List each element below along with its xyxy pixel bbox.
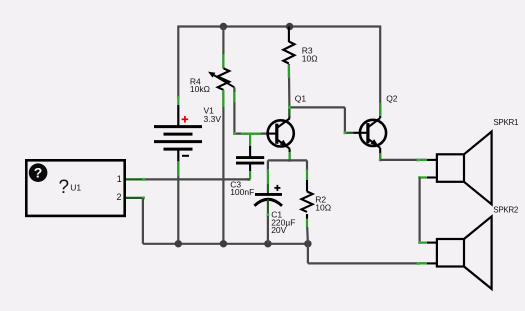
wire battery negative lead <box>177 161 179 244</box>
wire R4 bottom lead to ground rail <box>222 90 224 244</box>
svg-text:1: 1 <box>117 174 122 184</box>
svg-text:3.3V: 3.3V <box>204 114 222 124</box>
wire R4 wiper to Q1 base <box>233 87 269 135</box>
resistor R4 (variable) <box>208 27 234 90</box>
wire Q2 collector to top rail <box>379 27 381 117</box>
junction node battery bottom <box>175 240 182 247</box>
resistor R2 <box>301 180 312 219</box>
svg-text:2: 2 <box>117 192 122 202</box>
junction node C1 bottom <box>264 240 271 247</box>
wire Q1 collector to Q2 base <box>288 106 360 134</box>
transistor Q2 <box>360 106 386 160</box>
wire battery positive lead <box>177 27 179 99</box>
svg-text:100nF: 100nF <box>230 187 254 197</box>
junction node R4 bottom <box>220 240 227 247</box>
svg-text:?: ? <box>34 165 43 181</box>
junction node R3 top <box>286 23 293 30</box>
svg-text:10Ω: 10Ω <box>302 54 318 64</box>
capacitor C3 <box>236 134 264 181</box>
svg-text:20V: 20V <box>271 225 286 235</box>
svg-text:U1: U1 <box>70 182 81 192</box>
svg-text:Q2: Q2 <box>386 94 398 104</box>
resistor R3 <box>283 27 294 64</box>
svg-text:SPKR1: SPKR1 <box>493 118 519 127</box>
wire SPKR1 pin2 to SPKR2 pin1 <box>418 176 437 244</box>
wire U1 pin1 to C3 <box>125 178 250 181</box>
junction node R4 top <box>220 23 227 30</box>
wire ground rail to SPKR2 <box>308 244 437 265</box>
wire top rail <box>177 25 381 27</box>
wire Q1 emitter node <box>268 152 307 185</box>
transistor Q1 <box>268 106 294 160</box>
svg-text:10Ω: 10Ω <box>315 202 331 212</box>
junction node R2 bottom <box>304 240 311 247</box>
wire R2 bottom lead <box>306 219 309 244</box>
wire U1 pin2 to ground rail <box>125 196 308 243</box>
battery V1 <box>154 116 202 161</box>
wire R3 bottom to Q1 collector <box>288 64 291 107</box>
IC U1 (unknown part) <box>26 160 124 216</box>
wire C1 bottom lead <box>267 213 270 243</box>
svg-text:Q1: Q1 <box>295 94 307 104</box>
wire Q2 emitter to SPKR1 <box>379 153 437 161</box>
svg-text:SPKR2: SPKR2 <box>493 206 519 215</box>
capacitor C1 (electrolytic) <box>254 184 282 215</box>
svg-text:?: ? <box>59 177 70 198</box>
speaker SPKR2 <box>437 216 492 289</box>
speaker SPKR1 <box>437 132 492 205</box>
svg-text:10kΩ: 10kΩ <box>190 84 210 94</box>
